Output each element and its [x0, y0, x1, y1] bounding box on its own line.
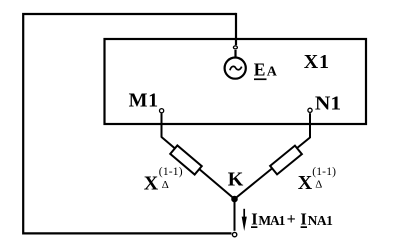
svg-text:X1: X1 — [304, 51, 330, 73]
svg-text:K: K — [228, 169, 244, 191]
svg-text:Δ: Δ — [162, 179, 169, 191]
svg-text:X: X — [298, 172, 313, 194]
svg-text:I: I — [300, 210, 306, 229]
svg-text:M1: M1 — [129, 89, 159, 111]
svg-text:NA1: NA1 — [308, 213, 333, 228]
svg-text:N1: N1 — [315, 92, 341, 114]
svg-text:E: E — [254, 60, 266, 80]
svg-text:MA1: MA1 — [258, 213, 285, 228]
svg-text:I: I — [251, 210, 257, 229]
svg-text:(1-1): (1-1) — [312, 166, 336, 178]
svg-text:Δ: Δ — [315, 179, 322, 191]
svg-text:X: X — [144, 172, 159, 194]
svg-text:+: + — [287, 211, 296, 228]
svg-text:(1-1): (1-1) — [159, 166, 183, 178]
svg-text:A: A — [267, 65, 278, 80]
